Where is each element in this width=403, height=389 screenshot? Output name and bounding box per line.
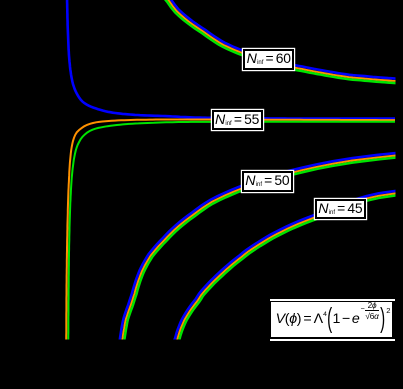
label N_inf=50 <box>242 171 293 192</box>
N_inf=50 curve blue <box>120 152 403 341</box>
N_inf=45 curve orange <box>177 191 403 341</box>
N_inf=60 curve orange <box>165 0 396 81</box>
N_inf=60 curve green <box>163 0 396 83</box>
formula box <box>271 302 392 337</box>
formula box overline <box>270 299 395 301</box>
label N_inf=45 <box>315 199 366 220</box>
N_inf=50 curve green <box>124 156 403 341</box>
label N_inf=60 <box>243 49 294 70</box>
formula V(phi)=Lambda^4(1-e^(-2phi/sqrt(6alpha)))^2 <box>271 302 392 337</box>
N_inf=45 curve green <box>179 193 403 342</box>
label N_inf=55 <box>212 110 263 131</box>
formula box underline <box>270 339 395 341</box>
N_inf=55 curve blue branch <box>67 0 395 119</box>
N_inf=55 curve green branch <box>68 122 395 342</box>
N_inf=50 curve orange <box>122 154 403 341</box>
N_inf=45 curve blue <box>174 188 403 340</box>
N_inf=60 curve blue <box>167 0 397 79</box>
N_inf=55 curve orange branch <box>66 120 395 343</box>
